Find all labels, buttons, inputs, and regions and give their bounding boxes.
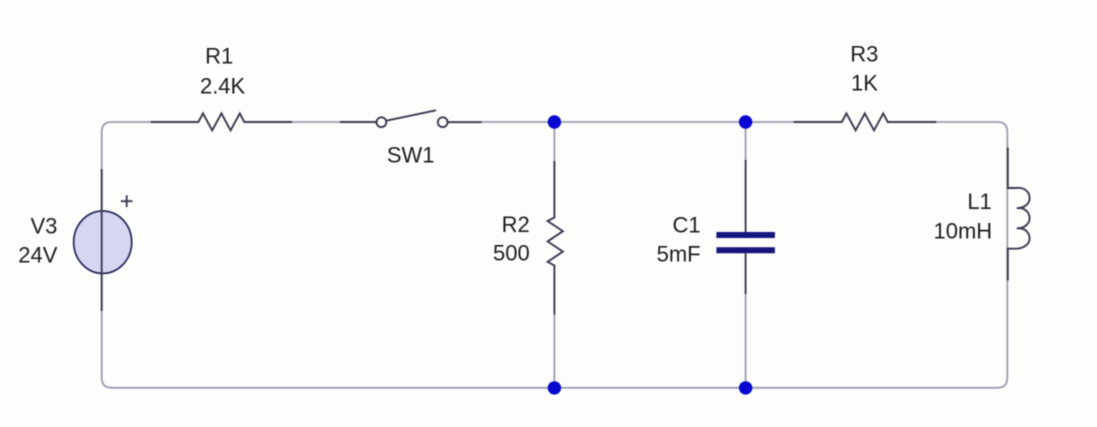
resistor R2	[548, 161, 563, 315]
wire	[745, 122, 747, 161]
node dot top-left	[548, 115, 561, 128]
node dot top-right	[739, 115, 752, 128]
svg-text:1K: 1K	[851, 70, 878, 95]
switch SW1	[340, 110, 482, 127]
svg-text:L1: L1	[967, 189, 991, 214]
svg-text:24V: 24V	[18, 243, 57, 268]
svg-text:500: 500	[493, 240, 530, 265]
wire	[443, 121, 842, 123]
wire	[553, 313, 555, 388]
wire	[553, 122, 555, 162]
node dot bottom-right	[739, 381, 752, 394]
wire	[102, 122, 1008, 388]
wire	[745, 293, 747, 388]
svg-text:C1: C1	[672, 212, 700, 237]
wire	[244, 121, 381, 123]
capacitor C1	[716, 160, 775, 294]
svg-text:R1: R1	[205, 44, 233, 69]
svg-text:R3: R3	[850, 41, 878, 66]
node dot bottom-left	[548, 381, 561, 394]
svg-text:2.4K: 2.4K	[200, 73, 246, 98]
svg-text:SW1: SW1	[387, 143, 435, 168]
voltage source V3	[74, 169, 133, 311]
svg-text:V3: V3	[30, 214, 57, 239]
inductor L1	[1008, 148, 1030, 281]
svg-text:10mH: 10mH	[934, 218, 993, 243]
svg-text:5mF: 5mF	[657, 242, 701, 267]
resistor R3	[794, 113, 937, 130]
svg-text:R2: R2	[502, 212, 530, 237]
resistor R1	[151, 113, 292, 130]
